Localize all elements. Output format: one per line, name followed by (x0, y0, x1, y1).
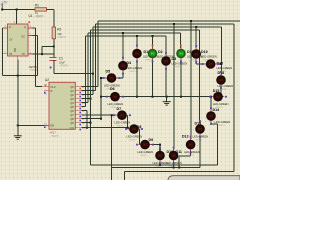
node Q3-x90.5 (90, 98, 92, 100)
svg-text:LED-GREEN: LED-GREEN (213, 102, 229, 106)
wire D2 anode drop (152, 36, 154, 48)
node D7D8 join (127, 127, 129, 129)
capacitor C1 (50, 56, 70, 67)
LED D17 (202, 59, 233, 73)
wire C1 gnd bus (54, 73, 93, 75)
node bus-D14 (210, 96, 212, 98)
IC U2 4017 counter (45, 78, 75, 138)
svg-text:<TEXT>: <TEXT> (217, 124, 226, 127)
node bus-D2 (152, 96, 154, 98)
node N5-D4 (122, 32, 124, 34)
wire D17-x221 (216, 63, 221, 65)
wire D1 anode drop (136, 36, 138, 48)
svg-text:D1: D1 (144, 50, 149, 54)
wire D13 anode drop (199, 30, 201, 124)
LED D6 (106, 87, 124, 109)
svg-text:<TEXT>: <TEXT> (168, 165, 177, 168)
svg-text:<TEXT>: <TEXT> (57, 36, 67, 39)
wire D16 anode drop (180, 33, 182, 48)
pin U2 CO (75, 128, 85, 131)
wire Q7-D7 run (81, 114, 116, 116)
pin U2 Q9 (75, 123, 85, 126)
wire Q2 run (81, 94, 93, 96)
wire D9-D10 h (151, 144, 160, 146)
svg-text:<TEXT>: <TEXT> (140, 154, 149, 157)
node bus-gnd (166, 96, 168, 98)
pin U2 Q6 (75, 111, 84, 114)
wire CO-D8 row y127.7 (81, 127, 128, 129)
wire bottom y167.5 (112, 167, 200, 169)
LED D14 (206, 107, 230, 127)
wire D4-D5 (117, 77, 123, 79)
svg-text:LED-GREEN: LED-GREEN (127, 134, 143, 138)
wire D18-D15 v (220, 92, 222, 97)
wire D10 cathode drop (159, 161, 161, 165)
wire V x90.5 (90, 30, 92, 165)
wire R2 bottom lead (53, 39, 55, 47)
node N6-D1 (136, 35, 138, 37)
node rail junction (16, 9, 18, 11)
LED D19 (191, 45, 216, 63)
svg-text:D9: D9 (149, 138, 154, 142)
svg-text:CLK: CLK (51, 85, 56, 89)
wire D18 cathode lead (220, 86, 222, 92)
wire y171.7 left riser (123, 172, 125, 180)
LED D9 (136, 138, 154, 157)
wire C1 top lead (53, 46, 55, 57)
svg-text:C1: C1 (59, 56, 63, 60)
wire TH run (33, 53, 54, 55)
pin U2 Q2 (75, 95, 84, 98)
svg-text:DC: DC (22, 36, 26, 39)
svg-text:CO: CO (70, 126, 74, 130)
wire nest N3 y27 (93, 26, 221, 28)
LED D8 (125, 124, 143, 141)
node gnd bus U1 (17, 75, 19, 77)
node rail start (1, 9, 3, 11)
node bus-x101 (100, 96, 102, 98)
wire Q out (33, 27, 36, 29)
svg-text:Q0: Q0 (70, 85, 74, 89)
wire Q8 run (81, 118, 101, 120)
node N6-D2 (152, 35, 154, 37)
LED D1 (132, 45, 159, 63)
svg-text:LED-GREEN: LED-GREEN (184, 150, 200, 154)
svg-text:CV: CV (9, 39, 13, 42)
node EN-gnd corner (17, 124, 19, 126)
pin U2 Q8 (75, 119, 84, 122)
pin indicator C1 low (50, 67, 52, 69)
svg-text:EN: EN (51, 124, 55, 128)
wire Q6 run (81, 110, 87, 112)
svg-text:Q9: Q9 (70, 121, 74, 125)
svg-text:LED-GREEN: LED-GREEN (215, 120, 231, 124)
node D5-x101 (100, 77, 102, 79)
power terminal +5V (1, 1, 9, 10)
node N1-D12 (190, 20, 192, 22)
pin U2 Q0 (75, 87, 84, 90)
pin U2 Q1 (75, 91, 84, 94)
wire D3 cathode drop (165, 67, 167, 97)
svg-text:D5: D5 (106, 70, 111, 74)
wire TR bottom route (3, 75, 38, 77)
svg-text:U1: U1 (29, 14, 33, 18)
pin U2 Q5 (75, 107, 84, 110)
node N2-D11 feed (173, 23, 175, 25)
svg-text:Q8: Q8 (70, 117, 74, 121)
svg-text:R: R (51, 89, 53, 93)
wire DC out (33, 34, 38, 36)
svg-text:<TEXT>: <TEXT> (129, 138, 138, 141)
wire D2 cathode drop (152, 59, 154, 97)
wire EN to ground run (18, 124, 49, 126)
resistor R1 (35, 3, 49, 18)
pin U2 Q3 (75, 99, 84, 102)
wire D3 anode drop (165, 36, 167, 55)
wire V x95.5 (95, 24, 97, 91)
svg-text:D12: D12 (182, 134, 189, 138)
wire D14 return v (217, 124, 219, 165)
svg-text:LED-GREEN: LED-GREEN (127, 66, 143, 70)
LED D16 (lit) (176, 45, 203, 63)
wire R2 bottom h (42, 45, 54, 47)
wire V x85.5 (85, 36, 87, 107)
svg-text:LED-GREEN: LED-GREEN (108, 102, 124, 106)
LED D4 (118, 57, 142, 75)
wire Q5 run (81, 106, 85, 108)
wire Q9 run (81, 122, 90, 124)
wire V x88 (87, 33, 89, 103)
wire D6 left (101, 96, 109, 98)
wire Q to CLK (36, 86, 43, 88)
wire Q vertical (35, 28, 37, 87)
wire D14 return h (211, 123, 218, 125)
svg-text:D14: D14 (213, 108, 220, 112)
LED D18 (216, 71, 233, 91)
wire bottom return y171.7 (124, 171, 234, 173)
svg-text:U2: U2 (45, 78, 49, 82)
wire y167.5 left riser (111, 115, 113, 180)
pin U2 EN (44, 123, 49, 128)
svg-text:LED-GREEN: LED-GREEN (172, 61, 188, 65)
wire D18-D15 h (221, 96, 224, 98)
wire gnd vertical (17, 76, 19, 136)
wire V x101 (100, 78, 102, 119)
svg-text:Q5: Q5 (70, 105, 74, 109)
wire Q4 run (81, 102, 88, 104)
instrument corner bottom-right (168, 176, 240, 181)
svg-text:TR: TR (9, 53, 12, 56)
LED D15 (209, 89, 228, 109)
LED D3 (161, 52, 187, 70)
wire D12 anode long drop (190, 21, 192, 139)
svg-text:D2: D2 (158, 50, 163, 54)
svg-text:D6: D6 (110, 87, 115, 91)
svg-text:Q7: Q7 (70, 113, 74, 117)
wire Q3 run (81, 98, 90, 100)
node C1 bus junction (92, 73, 94, 75)
node D9D10 (159, 144, 161, 146)
wire ground lead (166, 97, 168, 102)
LED D11 (166, 147, 182, 168)
svg-text:Q1: Q1 (70, 89, 74, 93)
node Q7-riser (111, 114, 113, 116)
node bus-D1 (136, 96, 138, 98)
node TH junction (41, 53, 43, 55)
svg-text:<TEXT>: <TEXT> (117, 125, 126, 128)
svg-text:TH: TH (22, 53, 25, 56)
LED D10 (153, 147, 174, 168)
wire D4 anode drop (122, 33, 124, 60)
wire D7-D8 v (127, 115, 129, 128)
node Q8-x101 (100, 118, 102, 120)
svg-text:<TEXT>: <TEXT> (34, 16, 44, 19)
resistor R2 (52, 27, 67, 39)
pin numbers U1 (5, 22, 33, 61)
wire D11 anode long drop (173, 24, 175, 149)
svg-text:555: 555 (14, 47, 17, 52)
pin U1 DC (28, 34, 33, 36)
svg-text:D3: D3 (172, 57, 177, 61)
node y167-D11 (173, 167, 175, 169)
svg-text:<TEXT>: <TEXT> (60, 65, 70, 68)
wire D10 anode v (159, 145, 161, 150)
ground (163, 102, 171, 105)
wire D14 cathode lead (210, 122, 212, 124)
svg-text:<TEXT>: <TEXT> (186, 154, 195, 157)
wire D1 cathode drop (136, 59, 138, 97)
node R2-C1 junction (53, 45, 55, 47)
svg-text:Q6: Q6 (70, 109, 74, 113)
svg-text:R2: R2 (57, 27, 61, 31)
IC U1 NE555 timer (8, 14, 44, 72)
svg-text:R1: R1 (35, 3, 39, 7)
ground U2 EN (14, 136, 22, 139)
wire D14 anode drop (210, 97, 212, 111)
wire DC vertical (36, 35, 38, 75)
wire D11 cathode drop (173, 161, 175, 168)
wire D8-D9 v (139, 129, 141, 145)
svg-text:LED-GREEN: LED-GREEN (201, 54, 217, 58)
wire nest N1 y21 (98, 20, 240, 22)
wire bottom y165 (91, 164, 218, 166)
node D10 top T (159, 149, 161, 151)
wire Q1 run (81, 90, 95, 92)
node Q6-CO row (86, 127, 88, 129)
wire Q0 run (81, 86, 98, 88)
pin U2 Q4 (75, 103, 85, 106)
pin U2 R (44, 91, 49, 96)
pin indicator U1 Q high (28, 21, 30, 23)
pin U1 Q (28, 27, 33, 29)
svg-text:D19: D19 (201, 50, 208, 54)
LED D2 (lit) (148, 45, 174, 63)
wire Q6 vertical x86.9 (86, 111, 88, 128)
wire right edge vertical (233, 24, 235, 172)
wire D19-D17 (196, 63, 205, 65)
wire R1 to corner (47, 9, 55, 11)
svg-text:<TEXT>: <TEXT> (195, 138, 204, 141)
wire V x98 (97, 21, 99, 87)
svg-text:<TEXT>: <TEXT> (129, 70, 138, 73)
wire D12 cathode lead (190, 150, 192, 156)
node y165-D10 (159, 164, 161, 166)
LED D5 (103, 70, 121, 91)
svg-text:Q3: Q3 (70, 97, 74, 101)
node y167-D12ret (178, 167, 180, 169)
wire D19 anode drop (195, 27, 197, 48)
wire R2btm-TH v (41, 46, 43, 54)
wire V x93 (92, 27, 94, 95)
svg-text:<TEXT>: <TEXT> (174, 65, 183, 68)
pin U1 CV (3, 27, 8, 29)
wire nest N5 y33 (88, 32, 181, 34)
node N3-D19 (195, 26, 197, 28)
wire D16 cathode drop (180, 59, 182, 97)
pin U1 GND (17, 56, 19, 60)
node D17-x221 (220, 63, 222, 65)
pin U1 TH (28, 53, 33, 55)
wire D19 cathode (195, 60, 197, 64)
wire D12 return v (178, 156, 180, 168)
pin U1 TR (3, 52, 8, 54)
svg-text:LED-GREEN: LED-GREEN (138, 150, 154, 154)
wire D13 cathode drop (199, 135, 201, 168)
LED D12 (182, 134, 200, 156)
svg-text:LED-GREEN: LED-GREEN (115, 121, 131, 125)
node Q9-x90.5 (90, 122, 92, 124)
wire D4 cathode (122, 71, 124, 78)
wire D12 return h (179, 155, 190, 157)
svg-text:LED-GREEN: LED-GREEN (217, 66, 233, 70)
svg-text:D17: D17 (217, 61, 224, 65)
svg-text:D7: D7 (117, 107, 122, 111)
wire nest N2 y24 (96, 23, 235, 25)
pin U2 CLK (42, 85, 49, 87)
wire nest N4 y30 (91, 29, 200, 31)
pin U2 Q7 (75, 115, 84, 118)
wire R1-R2 vertical (53, 10, 55, 28)
svg-text:Q2: Q2 (70, 93, 74, 97)
wire U1 left vertical (2, 28, 4, 76)
node bus-D16 (180, 96, 182, 98)
wire nest N6 y36 (86, 35, 167, 37)
wire C1 bottom lead (53, 60, 55, 74)
svg-text:Q4: Q4 (70, 101, 74, 105)
svg-text:<TEXT>: <TEXT> (51, 135, 61, 138)
wire +5V rail (2, 9, 35, 11)
LED D13 (193, 120, 209, 141)
wire D5 left (101, 77, 106, 79)
svg-text:R: R (9, 26, 11, 29)
LED D7 (113, 107, 131, 128)
wire 555 VCC drop (16, 10, 18, 25)
svg-text:<TEXT>: <TEXT> (155, 165, 164, 168)
wire x221 vertical (220, 27, 222, 74)
wire D8 left riser (127, 128, 129, 129)
wire cathode bus y96.7 (101, 96, 212, 98)
svg-text:Q: Q (24, 26, 26, 29)
wire U1 GND drop (17, 60, 19, 76)
